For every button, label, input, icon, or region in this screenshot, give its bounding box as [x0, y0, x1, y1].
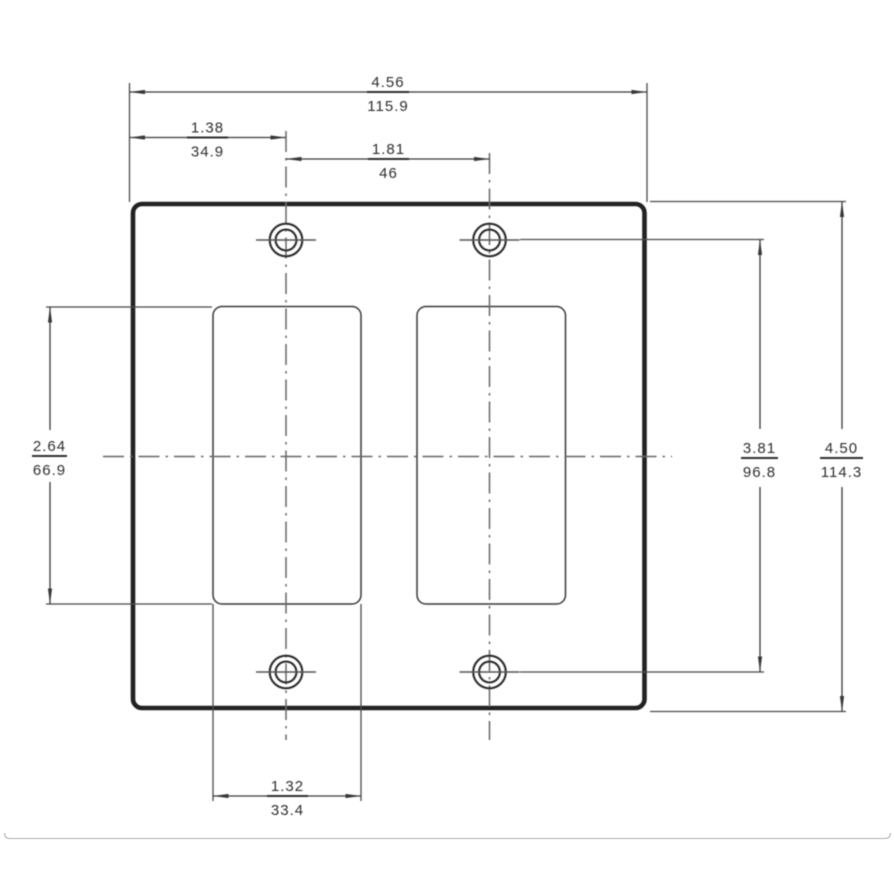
svg-text:96.8: 96.8 [743, 464, 776, 481]
extension line plate top right horizontal [650, 201, 846, 203]
extension line cutout-right bottom vertical [360, 604, 362, 801]
screw hole top-right [460, 224, 520, 257]
extension line screw bottom right horizontal [520, 671, 764, 673]
svg-text:66.9: 66.9 [33, 462, 66, 479]
page divider rule bottom [5, 833, 891, 839]
svg-text:33.4: 33.4 [271, 802, 304, 819]
screw hole bottom-right [460, 656, 520, 689]
left cutout opening [213, 307, 361, 605]
dimension 1.32/33.4 cutout width [213, 778, 361, 819]
extension line cutout bottom horizontal [46, 603, 212, 605]
svg-text:4.56: 4.56 [371, 74, 404, 91]
extension line cutout-left bottom vertical [212, 604, 214, 801]
screw hole bottom-left [256, 656, 316, 689]
screw hole top-left [256, 224, 316, 257]
centerline vertical left [285, 131, 287, 740]
dimension 1.38/34.9 left edge to screw center [130, 120, 287, 161]
svg-text:46: 46 [379, 165, 398, 182]
centerline vertical right [489, 153, 491, 740]
extension line screw top right horizontal [520, 239, 764, 241]
dimension 4.56/115.9 overall width [130, 74, 648, 115]
dimension 2.64/66.9 cutout height [32, 307, 67, 604]
dimension 1.81/46 screw spacing horizontal [286, 141, 490, 182]
extension line cutout top horizontal [46, 306, 212, 308]
svg-text:115.9: 115.9 [367, 98, 408, 115]
extension line left vertical (plate left edge) [129, 83, 131, 202]
svg-text:1.81: 1.81 [372, 141, 405, 158]
svg-text:34.9: 34.9 [191, 144, 224, 161]
svg-text:3.81: 3.81 [743, 440, 776, 457]
svg-text:4.50: 4.50 [825, 440, 858, 457]
plate outline [133, 204, 645, 708]
dimension 3.81/96.8 screw spacing vertical [741, 240, 778, 673]
centerline horizontal [103, 456, 672, 458]
extension line right vertical (plate right edge) [646, 83, 648, 202]
svg-text:114.3: 114.3 [821, 464, 862, 481]
svg-text:1.32: 1.32 [271, 778, 304, 795]
svg-text:1.38: 1.38 [191, 120, 224, 137]
extension line plate bottom right horizontal [650, 711, 846, 713]
dimension 4.50/114.3 overall height [820, 202, 863, 712]
right cutout opening [417, 307, 566, 605]
svg-text:2.64: 2.64 [33, 438, 66, 455]
